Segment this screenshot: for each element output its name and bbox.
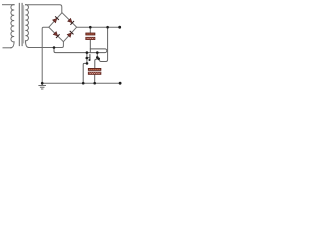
capacitor C1 negative plate (hatched): [86, 37, 95, 39]
transformer secondary spine shading: [23, 6, 25, 44]
wire bottom ground rail: [42, 82, 120, 84]
capacitor C1 positive plate: [86, 33, 95, 35]
capacitor C2 negative plate (hatched): [88, 72, 101, 74]
diode D3 bottom-left: [53, 32, 59, 38]
node left branch lower junction: [86, 62, 89, 65]
wire secondary bottom to bridge AC2: [29, 42, 64, 48]
node ground rail left junction: [41, 82, 44, 85]
transformer T1 primary winding: [11, 5, 15, 48]
node C1 top junction: [89, 26, 92, 29]
node bar bottom blob: [88, 59, 90, 61]
diode D4 bottom-right: [67, 31, 73, 37]
node rail right end terminal: [118, 26, 121, 29]
node left branch bottom junction: [82, 82, 85, 85]
node feedback top junction: [106, 26, 109, 29]
node loop junction: [96, 51, 99, 54]
diode D2 top-right: [68, 18, 74, 24]
wire left branch down: [83, 53, 87, 84]
wire feedback to plus rail: [99, 27, 108, 61]
ground symbol: [39, 83, 46, 89]
diode D1 top-left: [53, 16, 59, 22]
wire bridge minus to ground rail: [42, 27, 49, 83]
transformer T1 secondary winding: [26, 5, 29, 48]
node right branch mid junction: [96, 56, 99, 59]
node AC2 junction: [53, 46, 56, 49]
wire stub at left branch mid: [87, 57, 90, 59]
node rail bottom right terminal: [119, 82, 122, 85]
node left branch mid junction: [86, 57, 89, 60]
transformer core: [19, 3, 22, 45]
wire primary top terminal: [3, 4, 15, 6]
wire node AC2 down-right run to loop: [54, 48, 107, 53]
node feedback corner junction: [97, 58, 100, 61]
capacitor C2 positive plate: [88, 68, 101, 70]
wire secondary top to bridge AC1: [26, 5, 62, 13]
wire capacitor C2 bottom lead: [94, 74, 96, 83]
wire plus rail: [77, 26, 120, 28]
bridge rectifier diamond edges: [49, 13, 77, 42]
wire capacitor C1 top lead: [89, 27, 91, 33]
wire primary bottom terminal: [3, 47, 11, 49]
wire capacitor C1 bottom lead: [89, 40, 91, 53]
node left branch top junction: [86, 51, 89, 54]
node C2 bottom junction: [93, 82, 96, 85]
short bar x=89.9: [89, 55, 91, 60]
wire right branch to C2: [95, 53, 98, 69]
